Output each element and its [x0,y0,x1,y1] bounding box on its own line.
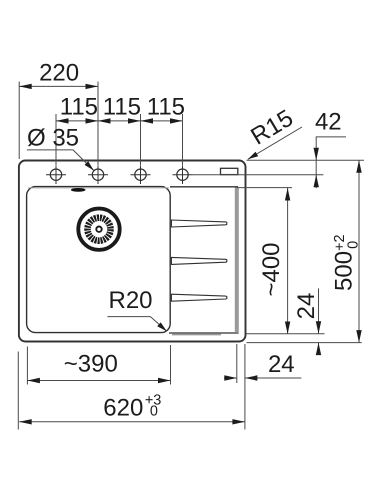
R20 arrow [157,322,167,331]
overflow slot rect top right [221,168,238,174]
svg-text:24: 24 [293,293,320,320]
svg-text:Ø 35: Ø 35 [27,125,79,152]
drainboard top line [170,186,238,188]
svg-text:115: 115 [147,94,185,121]
drainer groove 1 [171,220,226,227]
svg-text:~390: ~390 [64,350,118,377]
drainer groove 3 [171,294,226,301]
drain outer ring [78,209,119,250]
O35 leader arrow [85,161,94,170]
ext line hole3 up [140,114,142,165]
24h arrows [224,375,237,380]
dim line 500 [358,160,360,342]
ext line hole1 up [55,114,57,165]
tap hole 2 [88,165,108,184]
tap hole 1 [46,165,66,184]
dim line ~400 [287,188,289,334]
tap hole 4 [173,165,193,184]
drainboard bottom line [169,332,239,334]
42 shelf under text [316,136,346,138]
dim line 220 [19,85,98,87]
svg-text:115: 115 [60,94,98,121]
ext line hole4 up [182,114,184,165]
ext line left of sink for 220 [18,82,20,160]
ext ~390 right [170,345,172,385]
115 arrows [56,118,69,123]
leader O35 horizontal [27,149,73,151]
sink bottom ext right [247,342,362,344]
hole centre line extension right [193,174,324,176]
bowl top edge shadow [28,187,169,189]
svg-text:42: 42 [315,109,342,136]
390 arrows [27,378,40,383]
top edge ext right [247,159,365,161]
svg-text:220: 220 [39,60,79,87]
ext 620 right / 24h right [244,344,246,430]
dim line ~390 [27,380,170,382]
sink outer rim rect [19,161,246,342]
24h left tail [224,377,237,379]
drainboard right gray band [235,188,239,333]
bowl bottom ext right [247,333,325,335]
ext 24h left (gray band) [236,344,238,383]
svg-text:R20: R20 [108,287,152,314]
500 arrows [356,160,361,173]
42 dim vertical line [315,137,317,188]
400 arrows [285,188,290,201]
R15 leader [248,127,302,159]
svg-text:500+20: 500+20 [331,234,362,291]
svg-text:24: 24 [268,351,295,378]
R20 leader diagonal [150,317,166,332]
svg-text:620+30: 620+30 [103,392,161,421]
ext line hole2 up [97,82,99,166]
R20 leader horizontal [107,316,150,318]
tap hole 3 [131,165,151,184]
drain center ring [96,227,101,232]
24v arrows [316,321,321,334]
220 arrows [19,84,32,89]
42 arrows [314,148,319,161]
svg-text:~400: ~400 [258,242,285,296]
620 arrows [19,419,32,424]
R15 arrow [248,152,258,160]
drainboard bottom gray shadow [172,334,221,336]
bowl top ext right [237,187,292,189]
arrowheads [19,84,362,425]
dim line 620 [19,421,245,423]
overflow mark ellipse [71,188,86,192]
drainer groove 2 [171,257,226,264]
bowl [27,187,171,333]
drain strainer spokes [88,218,111,241]
svg-text:115: 115 [103,94,141,121]
ext ~390 left [26,347,28,385]
leader O35 diagonal [73,150,94,171]
24h right tail + shelf [245,377,302,379]
ext 620 left [17,352,19,430]
24v upper line [318,288,320,333]
dim line 115 row [56,120,183,122]
24v lower line [318,343,320,353]
